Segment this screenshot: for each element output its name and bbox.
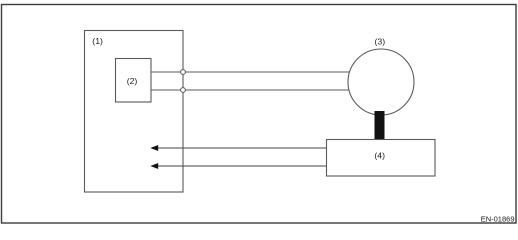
circle (3) sensor xyxy=(348,49,414,115)
svg-text:(2): (2) xyxy=(127,76,138,86)
arrowhead lower xyxy=(150,163,158,169)
wire upper (2)-(3) xyxy=(151,71,352,73)
svg-text:EN-01869: EN-01869 xyxy=(481,215,515,224)
svg-text:(1): (1) xyxy=(92,36,103,46)
box (1) control module xyxy=(85,31,184,193)
thick bar (3)-(4) xyxy=(375,111,385,140)
box (2) xyxy=(116,59,152,103)
box (4) xyxy=(327,140,436,177)
connector terminal upper xyxy=(181,70,186,75)
wire lower (2)-(3) xyxy=(151,89,352,91)
arrow wire upper (4)-(1) xyxy=(156,147,326,149)
svg-text:(3): (3) xyxy=(374,37,385,47)
connector terminal lower xyxy=(181,88,186,93)
svg-text:(4): (4) xyxy=(374,151,385,161)
arrow wire lower (4)-(1) xyxy=(156,165,326,167)
arrowhead upper xyxy=(150,145,158,151)
